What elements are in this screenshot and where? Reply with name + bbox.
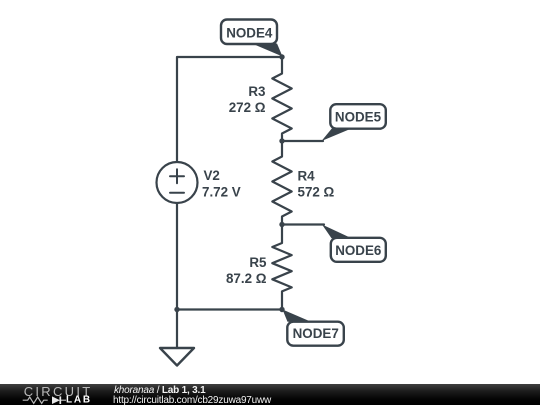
footer bar (0, 384, 540, 405)
svg-text:R4: R4 (298, 168, 316, 183)
svg-text:R3: R3 (248, 84, 265, 99)
node dot NODE5 junction (279, 138, 284, 143)
logo resistor + diode squiggle (23, 397, 48, 403)
callout tail NODE7 (283, 310, 312, 322)
voltage source V2 circle (157, 162, 198, 203)
node dot ground junction (174, 307, 179, 312)
V2 plus sign (170, 169, 184, 183)
wire node6 stub (282, 223, 324, 225)
ground (160, 348, 194, 366)
circuitlab logo (0, 384, 110, 405)
svg-text:572 Ω: 572 Ω (298, 185, 335, 200)
resistor R5 (272, 224, 291, 310)
callout box NODE5 (330, 104, 386, 129)
callout box NODE4 (221, 20, 277, 45)
resistor R4 (272, 141, 291, 224)
footer text (113, 383, 115, 385)
svg-text:NODE5: NODE5 (335, 110, 382, 125)
node dot NODE7 junction (279, 307, 284, 312)
svg-text:R5: R5 (249, 255, 267, 270)
callout tail NODE5 (322, 128, 353, 141)
resistor R3 (272, 58, 291, 141)
svg-text:NODE7: NODE7 (293, 326, 339, 341)
svg-text:272 Ω: 272 Ω (229, 100, 266, 115)
V2 minus sign (170, 192, 184, 194)
callout box NODE6 (331, 238, 386, 262)
wire node5 stub (282, 140, 323, 142)
node dot NODE6 junction (279, 222, 284, 227)
svg-text:87.2 Ω: 87.2 Ω (226, 271, 267, 286)
callout tail NODE4 (252, 44, 283, 57)
wire top horizontal + left vertical upper (177, 57, 282, 162)
svg-text:NODE6: NODE6 (335, 243, 381, 258)
node dot NODE4 junction (279, 54, 284, 59)
svg-text:LAB: LAB (66, 395, 92, 405)
svg-text:V2: V2 (204, 168, 220, 183)
svg-text:7.72 V: 7.72 V (202, 185, 241, 200)
wire bottom horizontal (177, 308, 282, 310)
callout box NODE7 (287, 322, 344, 346)
wire left vertical lower (176, 204, 178, 349)
svg-text:NODE4: NODE4 (226, 25, 273, 40)
callout tail NODE6 (322, 225, 352, 239)
